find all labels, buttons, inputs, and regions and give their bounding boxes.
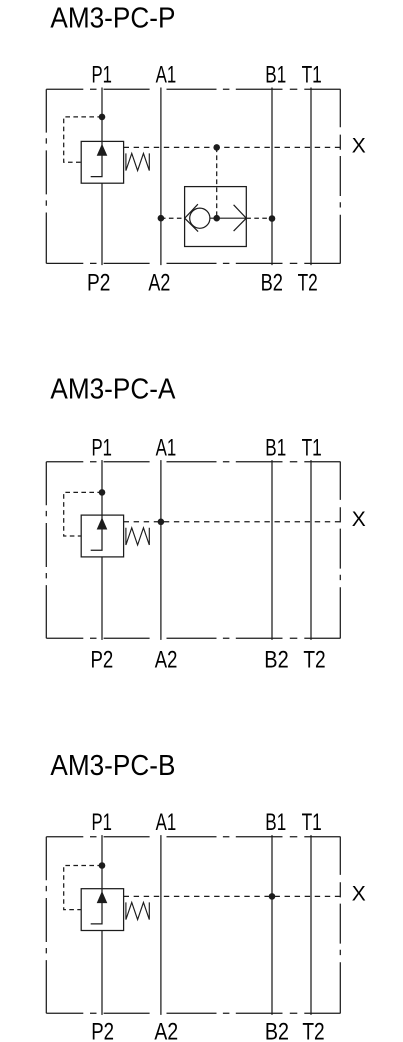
wire T1-T2 [310,835,312,1015]
junction node on X pilot line [213,144,220,151]
wire A1-A2 [160,835,162,1015]
svg-text:B2: B2 [264,647,288,674]
wire B1-B2 [271,88,273,266]
relief valve V3 spring [126,902,149,919]
pilot line from X line down to check valve (dashed) [216,147,218,215]
svg-text:X: X [352,506,366,531]
subplate outline bottom edge [46,262,340,264]
subplate outline bottom edge [46,637,340,639]
relief valve V3 flow arrow [91,889,102,924]
svg-text:A2: A2 [148,269,170,296]
subplate outline left edge [45,89,47,263]
svg-text:AM3-PC-A: AM3-PC-A [50,374,176,406]
svg-text:A2: A2 [155,647,178,674]
check valve outlet arrow [210,205,246,231]
pilot line from P node to valve left side (dashed) [64,492,102,536]
check valve CV1 seat [185,204,198,231]
svg-text:P2: P2 [87,269,110,296]
relief valve V3 body [81,889,123,931]
subplate outline left edge [45,462,47,638]
relief valve V1 body [81,141,123,183]
subplate outline right edge [339,837,341,1013]
subplate outline bottom edge [46,1012,340,1014]
svg-text:A1: A1 [156,435,177,462]
wire P1 to valve (P line upper) [101,835,103,889]
junction node at check valve pilot [213,215,220,222]
junction node on A line [158,215,165,222]
wire B1-B2 [271,460,273,640]
wire A1-A2 [160,88,162,266]
svg-text:P1: P1 [92,809,112,836]
relief valve V2 body [81,515,123,557]
junction node on X pilot line [269,893,276,900]
svg-text:B1: B1 [265,435,286,462]
svg-text:T2: T2 [303,647,325,674]
svg-text:P2: P2 [91,1019,114,1042]
svg-text:A2: A2 [154,1019,178,1042]
subplate outline right edge [339,462,341,638]
pilot line from P node to valve left side (dashed) [64,866,102,910]
wire T1-T2 [310,88,312,266]
svg-text:B2: B2 [265,1019,289,1042]
svg-text:AM3-PC-P: AM3-PC-P [50,3,175,35]
subplate outline top edge [46,461,340,463]
svg-text:T2: T2 [298,269,318,296]
relief valve V1 spring [126,153,149,170]
wire B1-B2 [271,835,273,1015]
subplate outline right edge [339,89,341,263]
svg-text:B2: B2 [261,269,283,296]
svg-text:P1: P1 [92,435,112,462]
wire A line to check valve (dashed) [161,217,185,219]
pilot line from P node to valve left side (dashed) [64,117,102,162]
pilot line X (dashed) [124,521,341,523]
wire P1 to valve (P line upper) [101,88,103,142]
svg-text:P1: P1 [92,62,112,89]
wire P1 to valve (P line upper) [101,460,103,515]
subplate outline top edge [46,836,340,838]
junction node on P line [99,862,106,869]
wire T1-T2 [310,460,312,640]
wire check valve to B line (dashed) [246,217,272,219]
svg-text:A1: A1 [156,62,177,89]
subplate outline top edge [46,88,340,90]
pilot line X (dashed) [124,146,341,148]
subplate outline left edge [45,837,47,1013]
junction node on B line [269,215,276,222]
junction node on P line [99,114,106,121]
relief valve V2 spring [126,528,149,545]
svg-text:T1: T1 [302,62,322,89]
svg-text:A1: A1 [156,809,177,836]
pilot line X (dashed) [124,895,341,897]
check valve CV1 body [185,187,247,247]
check valve CV1 ball [190,208,210,228]
svg-text:T1: T1 [302,809,322,836]
relief valve V1 flow arrow [91,141,102,176]
svg-text:P2: P2 [91,647,114,674]
wire valve to P2 (P line lower) [101,557,103,640]
svg-text:AM3-PC-B: AM3-PC-B [50,750,175,782]
svg-text:X: X [352,133,366,158]
svg-text:X: X [352,881,366,906]
svg-text:B1: B1 [265,809,286,836]
junction node on P line [99,489,106,496]
junction node on X pilot line [158,519,165,526]
svg-text:T1: T1 [302,435,322,462]
wire A1-A2 [160,460,162,640]
relief valve V2 flow arrow [91,515,102,550]
svg-text:B1: B1 [265,62,286,89]
wire valve to P2 (P line lower) [101,183,103,265]
svg-text:T2: T2 [302,1019,324,1042]
wire valve to P2 (P line lower) [101,931,103,1015]
